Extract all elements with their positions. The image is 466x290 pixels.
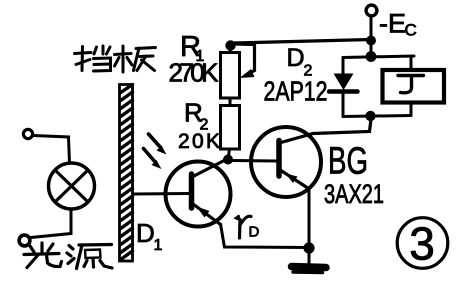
wire xyxy=(31,209,71,238)
terminal -Ec xyxy=(366,5,377,16)
svg-text:D: D xyxy=(249,224,260,241)
wire (terminal down) xyxy=(370,17,373,54)
wire (D1 emitter to bottom rail) xyxy=(221,224,310,248)
R1 wiper arrow xyxy=(236,44,255,73)
wire (BG emitter down) xyxy=(308,189,311,248)
ground xyxy=(308,248,311,264)
svg-text:20K: 20K xyxy=(178,130,220,153)
svg-text:BG: BG xyxy=(328,141,368,183)
wire (parallel top rail) xyxy=(343,56,414,58)
diode D2 xyxy=(334,74,354,91)
D1 collector xyxy=(193,159,227,177)
svg-text:1: 1 xyxy=(154,237,163,254)
svg-text:-E: -E xyxy=(379,9,406,39)
diode D2 branch wire xyxy=(342,58,345,75)
svg-text:3: 3 xyxy=(409,218,435,270)
svg-text:3AX21: 3AX21 xyxy=(324,179,384,209)
D1 base bar xyxy=(189,174,195,208)
wire (R1-R2) xyxy=(229,98,232,106)
node (parallel top junction) xyxy=(366,51,377,62)
resistor R1 270K xyxy=(221,53,240,99)
label rD xyxy=(237,217,241,239)
wire (R2 bottom) xyxy=(229,149,230,156)
baffle wall xyxy=(120,85,133,262)
D1 base lead xyxy=(134,192,190,196)
relay J branch wire xyxy=(410,57,413,70)
transistor BG 3AX21 xyxy=(251,127,321,197)
D1 emitter xyxy=(193,204,221,225)
label 挡板 (baffle) xyxy=(75,46,156,72)
node (base node) xyxy=(223,155,233,165)
light arrow 2 xyxy=(144,149,157,164)
svg-text:D: D xyxy=(287,44,305,72)
svg-text:2AP12: 2AP12 xyxy=(264,76,328,107)
node (parallel bottom junction) xyxy=(365,111,375,121)
node (emitter/ground junction) xyxy=(303,242,314,253)
resistor R2 20K xyxy=(221,106,240,150)
svg-text:C: C xyxy=(405,21,417,40)
BG base bar xyxy=(276,141,282,177)
node (rail junction) xyxy=(366,36,376,46)
relay J coil xyxy=(383,70,445,103)
terminal T2 (lamp bottom) xyxy=(19,235,30,246)
label 光源 (light source) xyxy=(24,243,112,269)
BG collector xyxy=(281,119,371,143)
BG emitter xyxy=(281,171,309,189)
wire (J bottom) xyxy=(410,104,413,116)
wire (R1 top) xyxy=(229,45,233,53)
wire (base node to BG base) xyxy=(232,159,277,163)
node (R1 top junction) xyxy=(225,40,235,50)
phototransistor D1 xyxy=(166,162,231,227)
figure number 3 xyxy=(397,218,448,269)
wire xyxy=(33,136,70,164)
lamp (light source) xyxy=(49,163,95,209)
light arrow 1 xyxy=(149,134,162,148)
terminal T1 (lamp top) xyxy=(23,129,32,138)
wire (top rail to -Ec) xyxy=(234,40,371,44)
svg-text:D: D xyxy=(136,218,155,248)
wire (parallel bottom rail) xyxy=(343,116,411,117)
svg-text:270K: 270K xyxy=(169,58,220,88)
